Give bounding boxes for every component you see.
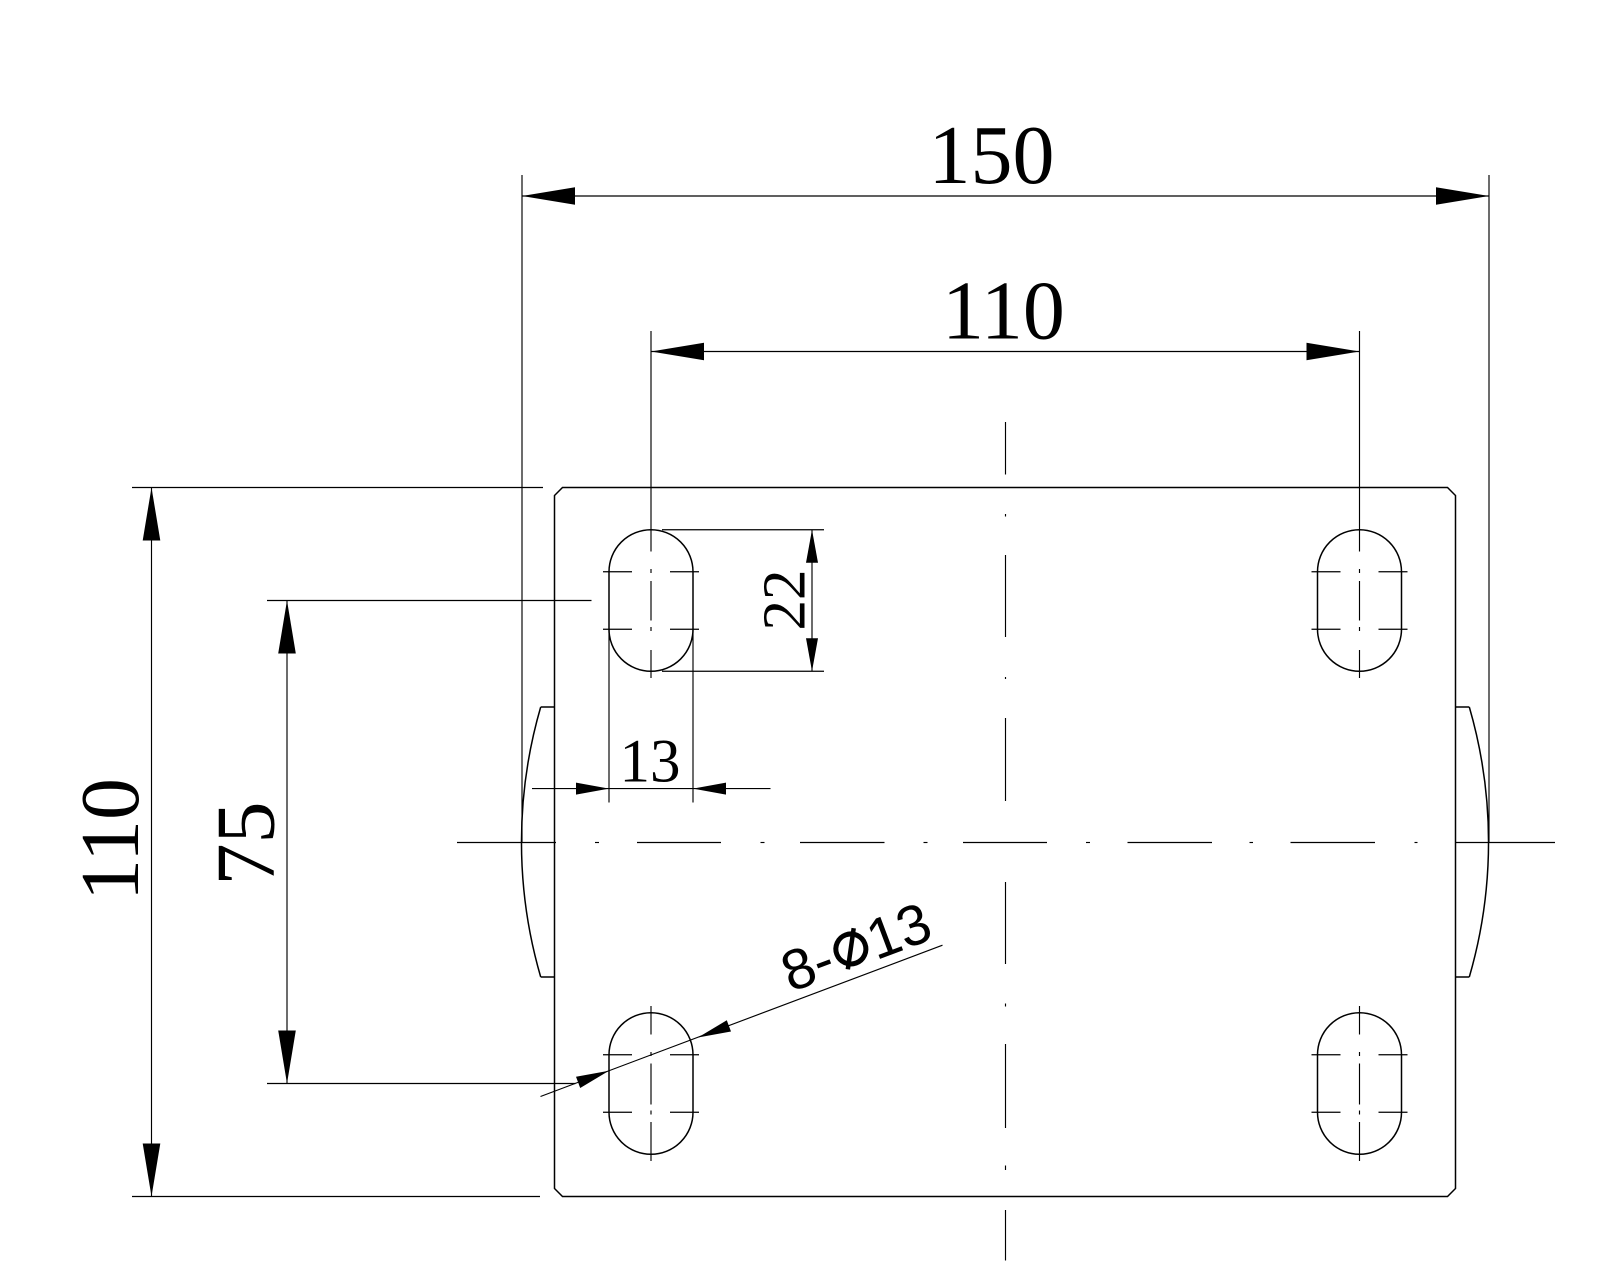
svg-text:150: 150 xyxy=(929,109,1055,202)
svg-text:110: 110 xyxy=(64,778,157,901)
svg-text:22: 22 xyxy=(752,570,819,631)
svg-text:110: 110 xyxy=(942,265,1065,358)
svg-text:75: 75 xyxy=(200,802,293,886)
svg-text:8-: 8- xyxy=(773,927,843,1005)
svg-text:13: 13 xyxy=(620,729,681,796)
svg-text:13: 13 xyxy=(858,890,940,972)
